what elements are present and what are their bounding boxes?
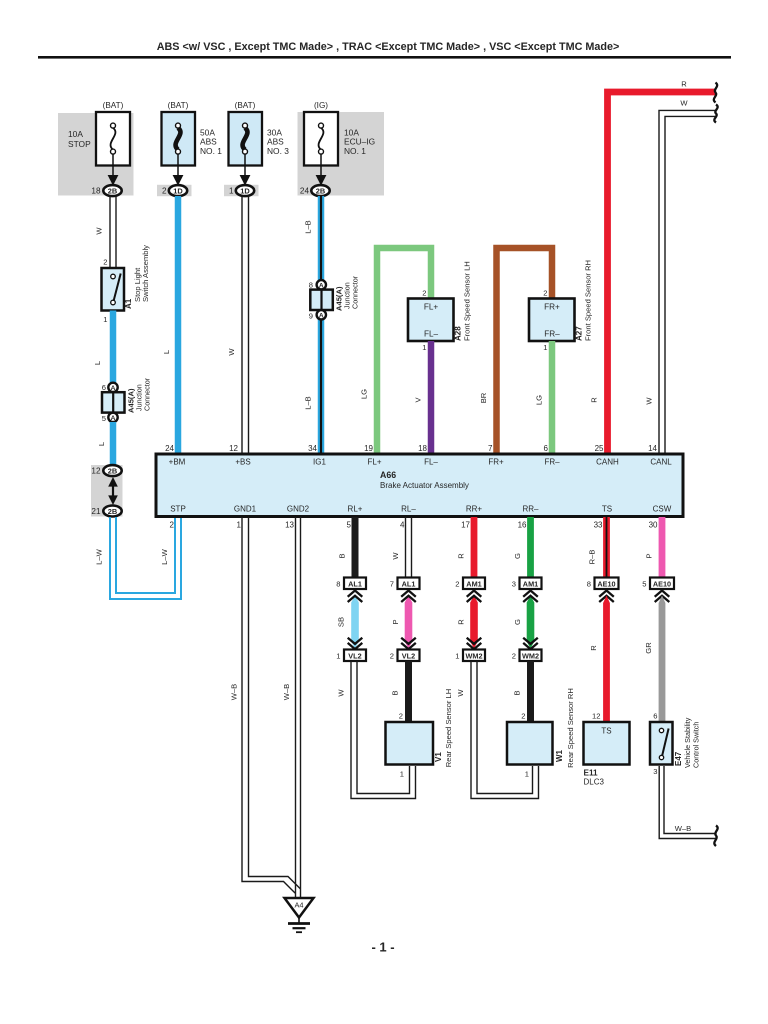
- svg-text:R: R: [589, 645, 598, 651]
- gray background ovals 12/21: [91, 465, 123, 517]
- svg-text:3: 3: [653, 767, 657, 776]
- wire B VL2 to V1 top: [391, 661, 409, 722]
- svg-text:TS: TS: [601, 727, 611, 736]
- svg-text:FR–: FR–: [544, 458, 560, 467]
- svg-text:9: 9: [309, 311, 313, 320]
- svg-text:3: 3: [512, 580, 516, 589]
- title text: [157, 41, 620, 53]
- chevrons below AE10 pin8: [599, 591, 614, 603]
- A66 top pin labels: [169, 458, 673, 467]
- connector oval 2 1D: [157, 185, 192, 196]
- wire W from fuse F1 to A1: [95, 196, 117, 268]
- fuse F1 (BAT) label: [103, 101, 124, 110]
- E47 pin 3: [653, 767, 657, 776]
- svg-text:17: 17: [461, 521, 470, 530]
- svg-text:1: 1: [543, 343, 547, 352]
- wire L from fuse F2 to A66 +BM: [162, 196, 178, 455]
- connector VL2 pin 2: [390, 650, 420, 662]
- svg-text:FL+: FL+: [424, 303, 439, 312]
- fuse F1 output arrow: [108, 154, 119, 186]
- A66 bottom pin numbers: [170, 521, 658, 530]
- svg-text:RL+: RL+: [348, 505, 363, 514]
- svg-text:6: 6: [653, 712, 657, 721]
- svg-text:A27: A27: [575, 326, 584, 341]
- svg-text:ABS <w/ VSC , Except TMC Made>: ABS <w/ VSC , Except TMC Made> , TRAC <E…: [157, 41, 620, 53]
- svg-text:2: 2: [543, 289, 547, 298]
- V1 pin 2: [399, 712, 403, 721]
- switch A1 Stop Light Switch Assembly: [102, 245, 151, 311]
- svg-text:RL–: RL–: [401, 505, 416, 514]
- svg-text:5: 5: [102, 414, 106, 423]
- svg-text:W: W: [227, 348, 236, 356]
- svg-text:33: 33: [594, 521, 603, 530]
- wire R-B A66 TS to AE10: [588, 517, 607, 578]
- svg-text:7: 7: [488, 444, 493, 453]
- svg-text:2B: 2B: [108, 466, 117, 475]
- svg-text:2B: 2B: [108, 507, 117, 516]
- chevrons below AM1 pin2: [467, 591, 482, 603]
- svg-text:12: 12: [592, 712, 600, 721]
- svg-text:W–B: W–B: [675, 824, 691, 833]
- svg-text:GND1: GND1: [234, 505, 257, 514]
- svg-text:1: 1: [229, 187, 234, 196]
- svg-text:L–B: L–B: [304, 220, 313, 234]
- wire SB AL1 to VL2: [337, 596, 359, 649]
- svg-text:AM1: AM1: [466, 580, 481, 589]
- wire L-B from fuse F4 to A66 IG1: [304, 196, 322, 455]
- sensor W1 Rear Speed Sensor RH: [507, 688, 575, 768]
- svg-text:FR–: FR–: [544, 330, 560, 339]
- double arrow between ovals: [108, 477, 118, 505]
- offpage squiggle R: [714, 83, 717, 103]
- wire W-B GND1 to ground: [230, 517, 301, 893]
- offpage squiggle W: [714, 105, 717, 123]
- wire P A66 CSW to AE10: [645, 517, 663, 578]
- connector VL2 pin 1: [336, 650, 366, 662]
- svg-text:NO. 1: NO. 1: [344, 146, 366, 156]
- svg-text:8: 8: [336, 580, 340, 589]
- svg-text:CANH: CANH: [596, 458, 619, 467]
- svg-text:2: 2: [455, 580, 459, 589]
- junction connector A45(A) pins 8/9 on IG1: [309, 275, 360, 320]
- svg-text:TS: TS: [602, 505, 612, 514]
- svg-text:BR: BR: [479, 392, 488, 403]
- chevrons above WM2 pin2: [523, 638, 538, 649]
- connector WM2 pin 2: [512, 650, 542, 662]
- svg-text:18: 18: [91, 187, 101, 196]
- svg-text:AE10: AE10: [597, 580, 615, 589]
- wire LG from A27 to A66 FR-: [535, 341, 553, 455]
- svg-text:30: 30: [649, 521, 658, 530]
- svg-text:GND2: GND2: [287, 505, 310, 514]
- svg-text:A1: A1: [124, 298, 133, 309]
- svg-text:6: 6: [544, 444, 549, 453]
- svg-text:NO. 3: NO. 3: [267, 146, 289, 156]
- fuse F2 output arrow: [173, 154, 184, 186]
- svg-text:R: R: [681, 80, 687, 89]
- svg-text:L: L: [162, 350, 171, 354]
- svg-text:LG: LG: [360, 389, 369, 399]
- fuse F4 10A ECU-IG block background: [298, 112, 385, 196]
- svg-text:FL+: FL+: [367, 458, 381, 467]
- svg-text:G: G: [513, 553, 522, 559]
- svg-text:Switch Assembly: Switch Assembly: [141, 245, 150, 302]
- ground symbol: [288, 918, 310, 933]
- wire L from A1 to junction A45: [93, 311, 113, 384]
- svg-text:2: 2: [521, 712, 525, 721]
- fuse F4 (IG) label: [314, 101, 328, 110]
- wire BR loop from A66 FR+ to A27 pin2: [479, 248, 552, 455]
- svg-text:RR–: RR–: [522, 505, 539, 514]
- svg-text:2: 2: [399, 712, 403, 721]
- svg-text:A: A: [319, 313, 324, 320]
- page number: [371, 940, 394, 955]
- A27 pin 1: [543, 343, 547, 352]
- svg-text:B: B: [338, 553, 347, 558]
- wire G A66 RR- to AM1: [513, 517, 531, 578]
- svg-text:WM2: WM2: [465, 652, 482, 661]
- fuse F3 (BAT) label: [235, 101, 256, 110]
- svg-text:CSW: CSW: [653, 505, 672, 514]
- svg-text:4: 4: [400, 521, 405, 530]
- svg-text:2: 2: [170, 521, 175, 530]
- svg-text:1: 1: [237, 521, 242, 530]
- svg-text:6: 6: [102, 383, 106, 392]
- svg-text:A4: A4: [294, 901, 303, 910]
- connector oval 12 2B: [91, 465, 121, 476]
- wire V from A28 to A66 FL-: [414, 341, 432, 455]
- svg-text:12: 12: [229, 444, 238, 453]
- chevrons above VL2 pin1: [348, 638, 363, 649]
- svg-text:AE10: AE10: [653, 580, 671, 589]
- svg-text:AM1: AM1: [523, 580, 538, 589]
- svg-text:W: W: [645, 397, 654, 405]
- svg-text:W: W: [337, 689, 346, 697]
- svg-text:W–B: W–B: [230, 684, 239, 700]
- svg-text:13: 13: [285, 521, 294, 530]
- fuse F2 50A ABS NO.1: [162, 112, 223, 166]
- wire R A66 RR+ to AM1: [457, 517, 475, 578]
- fuse F4 output arrow: [316, 154, 327, 186]
- connector AL1 pin 7: [390, 578, 420, 590]
- svg-text:7: 7: [390, 580, 394, 589]
- svg-text:1: 1: [400, 770, 404, 779]
- svg-text:1D: 1D: [173, 186, 183, 195]
- svg-text:21: 21: [91, 507, 101, 516]
- svg-text:8: 8: [587, 580, 591, 589]
- svg-text:A66: A66: [380, 470, 396, 480]
- svg-text:1D: 1D: [240, 186, 250, 195]
- svg-text:R–B: R–B: [588, 550, 597, 565]
- svg-text:P: P: [645, 553, 654, 558]
- svg-text:R: R: [457, 553, 466, 559]
- svg-text:L–W: L–W: [160, 548, 169, 564]
- svg-text:Front Speed Sensor RH: Front Speed Sensor RH: [584, 260, 593, 341]
- fuse F1 10A STOP block background: [58, 113, 134, 196]
- A1 pin 1: [103, 315, 107, 324]
- ECU A66 Brake Actuator Assembly: [156, 454, 683, 517]
- offpage squiggle W-B: [714, 826, 717, 847]
- chevrons below AE10 pin5: [655, 591, 670, 603]
- svg-text:GR: GR: [644, 642, 653, 654]
- svg-text:W: W: [680, 99, 688, 108]
- svg-text:RR+: RR+: [466, 505, 483, 514]
- chevrons below AM1 pin3: [523, 591, 538, 603]
- connector oval 24 2B: [300, 185, 330, 196]
- wire W VL2 to V1 bottom: [337, 661, 416, 799]
- connector AM1 pin 2: [455, 578, 485, 590]
- svg-text:VL2: VL2: [348, 652, 361, 661]
- svg-text:Rear Speed Sensor LH: Rear Speed Sensor LH: [444, 689, 453, 768]
- svg-text:A: A: [111, 415, 116, 422]
- V1 pin 1: [400, 770, 404, 779]
- svg-text:FR+: FR+: [488, 458, 504, 467]
- connector E11 DLC3: [584, 722, 630, 787]
- svg-text:V: V: [414, 397, 423, 403]
- svg-text:- 1 -: - 1 -: [371, 940, 394, 955]
- svg-text:FR+: FR+: [544, 303, 560, 312]
- wire B WM2 to W1 top: [513, 661, 531, 722]
- svg-text:2: 2: [390, 652, 394, 661]
- wire L from A45 to oval 12: [97, 422, 113, 466]
- svg-text:(BAT): (BAT): [235, 101, 256, 110]
- svg-text:V1: V1: [434, 752, 443, 762]
- chevrons below AL1 pin8: [348, 591, 363, 603]
- svg-text:Connector: Connector: [351, 275, 360, 309]
- connector AM1 pin 3: [512, 578, 542, 590]
- fuse F3 30A ABS NO.3: [229, 112, 290, 166]
- svg-text:2: 2: [422, 289, 426, 298]
- W1 pin 1: [525, 770, 529, 779]
- ground A4 triangle: [285, 898, 314, 918]
- svg-text:25: 25: [595, 444, 604, 453]
- svg-text:FL–: FL–: [424, 330, 439, 339]
- svg-text:8: 8: [309, 281, 313, 290]
- svg-text:19: 19: [364, 444, 373, 453]
- E11 pin 12: [592, 712, 600, 721]
- wire GR AE10 to E47: [644, 596, 665, 723]
- svg-text:W–B: W–B: [282, 684, 291, 700]
- svg-text:+BS: +BS: [235, 458, 250, 467]
- svg-text:SB: SB: [337, 617, 346, 627]
- svg-text:E47: E47: [674, 751, 683, 766]
- svg-text:1: 1: [455, 652, 459, 661]
- svg-text:STOP: STOP: [68, 139, 91, 149]
- A28 pin 2: [422, 289, 426, 298]
- svg-text:(BAT): (BAT): [168, 101, 189, 110]
- svg-text:Control Switch: Control Switch: [692, 722, 701, 768]
- E47 pin 6: [653, 712, 657, 721]
- fuse F4 10A ECU-IG NO.1: [304, 112, 375, 166]
- svg-text:L: L: [93, 361, 102, 365]
- svg-text:1: 1: [525, 770, 529, 779]
- svg-text:B: B: [391, 690, 400, 695]
- svg-text:Connector: Connector: [143, 377, 152, 411]
- svg-text:DLC3: DLC3: [584, 778, 605, 787]
- wire L-W U-route from oval 21 to A66 STP: [95, 517, 182, 599]
- svg-text:24: 24: [165, 444, 174, 453]
- wire R AM1 to WM2: [457, 596, 478, 649]
- svg-text:(BAT): (BAT): [103, 101, 124, 110]
- svg-text:W: W: [456, 689, 465, 697]
- svg-text:B: B: [513, 690, 522, 695]
- A66 bottom pin labels: [170, 505, 672, 514]
- switch E47 Vehicle Stability Control Switch: [650, 717, 701, 768]
- svg-text:+BM: +BM: [169, 458, 186, 467]
- svg-text:5: 5: [642, 580, 646, 589]
- svg-text:CANL: CANL: [650, 458, 672, 467]
- svg-text:1: 1: [103, 315, 107, 324]
- wire W A66 RL- to AL1: [391, 517, 412, 578]
- junction connector A45(A) pins 6/5: [102, 377, 152, 423]
- chevrons below AL1 pin7: [401, 591, 416, 603]
- svg-text:1: 1: [422, 343, 426, 352]
- svg-text:AL1: AL1: [348, 580, 362, 589]
- svg-text:34: 34: [308, 444, 317, 453]
- A28 pin 1: [422, 343, 426, 352]
- connector oval 1 1D: [224, 185, 259, 196]
- svg-text:AL1: AL1: [402, 580, 416, 589]
- W1 pin 2: [521, 712, 525, 721]
- wire W-B GND2 to ground: [282, 517, 301, 899]
- svg-text:W: W: [95, 227, 104, 235]
- svg-text:2: 2: [512, 652, 516, 661]
- A1 pin 2: [103, 258, 107, 267]
- wire W-B E47 to offpage: [659, 766, 716, 839]
- A66 top pin numbers: [165, 444, 657, 453]
- wire P AL1 to VL2: [391, 596, 412, 649]
- connector oval 21 2B: [91, 506, 121, 517]
- svg-text:10A: 10A: [68, 129, 83, 139]
- svg-text:L–W: L–W: [95, 548, 104, 564]
- svg-text:12: 12: [91, 467, 101, 476]
- svg-text:Brake Actuator Assembly: Brake Actuator Assembly: [380, 481, 469, 490]
- fuse F1 10A STOP: [68, 112, 130, 166]
- svg-text:2B: 2B: [316, 186, 325, 195]
- connector AL1 pin 8: [336, 578, 366, 590]
- svg-text:NO. 1: NO. 1: [200, 146, 222, 156]
- wire R AE10 to E11: [589, 596, 610, 723]
- wire G AM1 to WM2: [513, 596, 534, 649]
- svg-text:R: R: [590, 397, 599, 403]
- chevrons above VL2 pin2: [401, 638, 416, 649]
- svg-text:WM2: WM2: [522, 652, 539, 661]
- wire W from fuse F3 to A66 +BS: [227, 196, 249, 455]
- fuse F3 output arrow: [240, 154, 251, 186]
- connector WM2 pin 1: [455, 650, 485, 662]
- sensor A27 Front Speed Sensor RH: [529, 260, 593, 341]
- wire W CANL to offpage: [645, 99, 717, 456]
- wire W WM2 to W1 bottom: [456, 661, 539, 799]
- svg-text:VL2: VL2: [402, 652, 415, 661]
- svg-text:FL–: FL–: [424, 458, 438, 467]
- title rule: [38, 56, 731, 59]
- svg-text:STP: STP: [170, 505, 186, 514]
- svg-text:G: G: [513, 619, 522, 625]
- connector oval 18 2B: [91, 185, 121, 196]
- svg-text:2: 2: [162, 187, 167, 196]
- svg-text:18: 18: [418, 444, 427, 453]
- sensor V1 Rear Speed Sensor LH: [386, 689, 454, 768]
- svg-text:2B: 2B: [108, 186, 117, 195]
- svg-text:E11: E11: [584, 769, 599, 778]
- wire R CANH to offpage: [590, 80, 716, 456]
- fuse F2 (BAT) label: [168, 101, 189, 110]
- svg-text:R: R: [457, 619, 466, 625]
- svg-text:16: 16: [518, 521, 527, 530]
- svg-text:(IG): (IG): [314, 101, 328, 110]
- wire LG loop from A66 FL+ to A28 pin2: [360, 248, 432, 455]
- svg-text:LG: LG: [535, 395, 544, 405]
- svg-text:L–B: L–B: [304, 396, 313, 410]
- svg-text:P: P: [391, 619, 400, 624]
- svg-text:14: 14: [648, 444, 657, 453]
- svg-text:L: L: [97, 442, 106, 446]
- connector AE10 pin 8: [587, 578, 619, 590]
- wire B A66 RL+ to AL1: [338, 517, 356, 578]
- svg-text:IG1: IG1: [313, 458, 326, 467]
- sensor A28 Front Speed Sensor LH: [408, 261, 472, 341]
- svg-text:W1: W1: [555, 749, 564, 762]
- svg-text:2: 2: [103, 258, 107, 267]
- A27 pin 2: [543, 289, 547, 298]
- chevrons above WM2 pin1: [467, 638, 482, 649]
- svg-text:5: 5: [347, 521, 352, 530]
- svg-text:A28: A28: [454, 326, 463, 341]
- svg-text:24: 24: [300, 187, 310, 196]
- svg-text:1: 1: [336, 652, 340, 661]
- svg-text:W: W: [391, 552, 400, 560]
- connector AE10 pin 5: [642, 578, 674, 590]
- svg-text:Rear Speed Sensor RH: Rear Speed Sensor RH: [566, 688, 575, 768]
- svg-text:Front Speed Sensor LH: Front Speed Sensor LH: [463, 261, 472, 341]
